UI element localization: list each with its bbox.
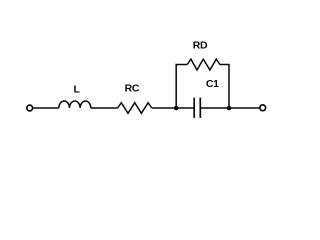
junction node A <box>174 106 179 111</box>
wire RC to node A <box>152 107 176 109</box>
svg-text:RD: RD <box>193 39 208 51</box>
svg-text:L: L <box>73 83 80 95</box>
svg-text:C1: C1 <box>206 78 219 90</box>
capacitor C1 <box>194 98 200 118</box>
wire node A to C1 <box>176 107 194 109</box>
wire C1 to node B <box>200 107 229 109</box>
resistor RC <box>118 103 152 114</box>
wire node B to T2 <box>229 107 259 109</box>
wire L to RC <box>91 107 118 109</box>
resistor RD <box>187 59 220 70</box>
wire T1 to L <box>33 107 59 109</box>
wire node A up to RD branch <box>176 65 187 109</box>
inductor L <box>59 101 91 108</box>
junction node B <box>227 106 232 111</box>
wire RD down to node B <box>220 65 229 109</box>
svg-text:RC: RC <box>125 83 140 95</box>
terminal T1 (left input) <box>27 105 33 111</box>
terminal T2 (right output) <box>260 105 266 111</box>
